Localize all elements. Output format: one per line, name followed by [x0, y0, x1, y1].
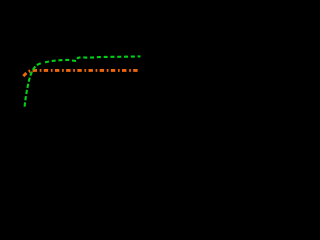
chart: two training curves on black background: [0, 0, 147, 156]
green dashed curve, steep rise section: [25, 63, 42, 107]
green dashed curve, plateau section: [43, 56, 141, 63]
orange dash-dot curve (lower plateau): [23, 70, 138, 76]
